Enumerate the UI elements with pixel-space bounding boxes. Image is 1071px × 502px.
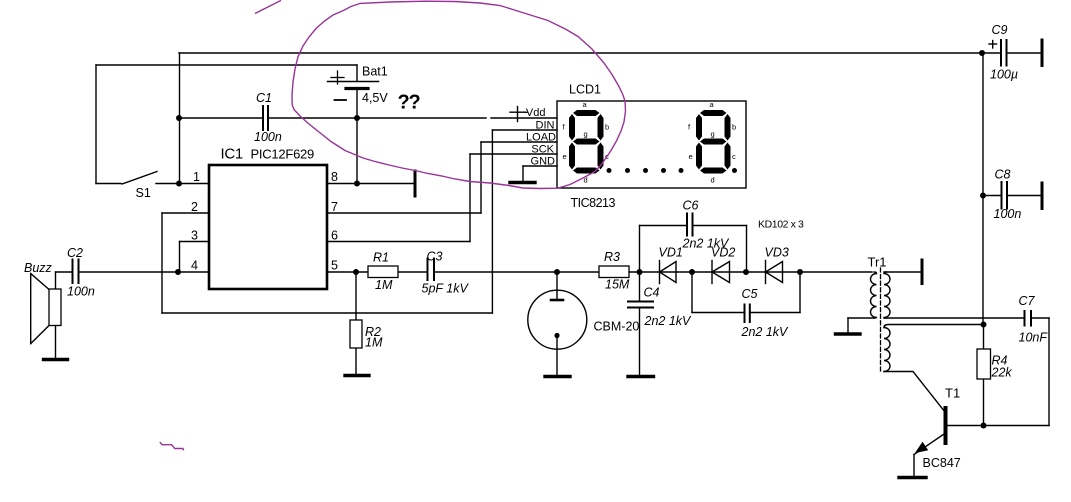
svg-text:CBM-20: CBM-20: [594, 320, 640, 334]
svg-text:C5: C5: [742, 287, 758, 301]
svg-text:LCD1: LCD1: [569, 83, 601, 97]
svg-text:5pF 1kV: 5pF 1kV: [422, 282, 470, 296]
svg-text:S1: S1: [136, 186, 151, 200]
svg-text:PIC12F629: PIC12F629: [251, 147, 315, 162]
svg-text:1M: 1M: [375, 278, 393, 292]
svg-text:3: 3: [191, 229, 198, 243]
svg-text:b: b: [732, 123, 736, 132]
svg-text:15M: 15M: [605, 278, 630, 292]
svg-text:8: 8: [331, 170, 338, 184]
svg-text:TIC8213: TIC8213: [571, 196, 616, 210]
svg-text:4: 4: [191, 259, 198, 273]
svg-text:C2: C2: [67, 246, 83, 260]
svg-text:C4: C4: [644, 286, 660, 300]
svg-text:C1: C1: [256, 91, 272, 105]
svg-text:g: g: [711, 130, 715, 139]
svg-text:IC1: IC1: [221, 146, 243, 163]
svg-text:BC847: BC847: [923, 456, 961, 470]
svg-text:C9: C9: [992, 23, 1008, 37]
svg-text:b: b: [605, 123, 609, 132]
svg-text:c: c: [732, 152, 736, 161]
svg-text:e: e: [689, 152, 693, 161]
svg-text:VD1: VD1: [659, 246, 683, 260]
svg-text:22k: 22k: [991, 366, 1013, 380]
svg-text:Vdd: Vdd: [526, 107, 546, 119]
svg-text:LOAD: LOAD: [526, 131, 556, 143]
svg-text:R3: R3: [604, 250, 620, 264]
svg-text:T1: T1: [945, 386, 960, 401]
svg-text:d: d: [711, 176, 715, 185]
svg-text:100n: 100n: [67, 285, 95, 299]
svg-text:VD3: VD3: [765, 246, 789, 260]
svg-text:4,5V: 4,5V: [362, 91, 388, 105]
svg-text:g: g: [584, 130, 588, 139]
svg-text:-: -: [524, 107, 528, 119]
svg-text:1M: 1M: [365, 336, 383, 350]
svg-text:100n: 100n: [254, 130, 282, 144]
svg-text:2n2 1kV: 2n2 1kV: [741, 325, 790, 339]
svg-text:Tr1: Tr1: [868, 255, 887, 270]
svg-text:2: 2: [191, 200, 198, 214]
svg-text:6: 6: [331, 229, 338, 243]
svg-text:e: e: [563, 152, 567, 161]
svg-text:SCK: SCK: [531, 143, 554, 155]
svg-text:2n2 1kV: 2n2 1kV: [644, 314, 693, 328]
svg-text:VD2: VD2: [711, 246, 735, 260]
svg-text:10nF: 10nF: [1019, 331, 1049, 345]
svg-text:DIN: DIN: [536, 119, 555, 131]
svg-text:7: 7: [331, 200, 338, 214]
svg-text:GND: GND: [531, 155, 556, 167]
svg-text:R1: R1: [373, 251, 389, 265]
svg-text:Buzz: Buzz: [24, 261, 53, 275]
svg-text:??: ??: [398, 92, 421, 114]
svg-text:C6: C6: [683, 199, 699, 213]
svg-text:C7: C7: [1019, 294, 1036, 308]
svg-text:Bat1: Bat1: [362, 65, 388, 79]
svg-text:C3: C3: [427, 250, 443, 264]
svg-text:KD102 x 3: KD102 x 3: [758, 219, 804, 231]
svg-text:C8: C8: [995, 168, 1011, 182]
svg-text:100n: 100n: [994, 207, 1022, 221]
svg-text:1: 1: [193, 170, 200, 184]
svg-text:100µ: 100µ: [990, 68, 1018, 82]
svg-text:5: 5: [331, 259, 338, 273]
